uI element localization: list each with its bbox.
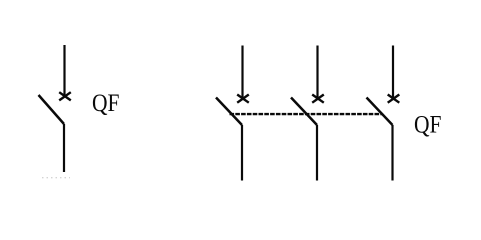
pole 3: breaker X contact: [388, 95, 400, 103]
svg-text:QF: QF: [414, 111, 442, 138]
wire: bottom terminal of QF (left): [63, 124, 65, 172]
faint dotted remnant under left symbol: [42, 177, 70, 179]
pole 3: switch blade: [367, 98, 393, 126]
pole 1: bottom terminal wire: [241, 125, 243, 181]
three-pole circuit breaker QF (right): [216, 46, 399, 181]
pole 1: top terminal wire: [241, 46, 243, 99]
pole 3: top terminal wire: [392, 46, 394, 99]
wire: top terminal of QF (left): [63, 45, 65, 96]
pole 1: switch blade: [216, 98, 242, 126]
breaker X contact (left): [59, 92, 71, 100]
pole 2: bottom terminal wire: [316, 125, 318, 181]
dashed mechanical linkage: [230, 113, 383, 115]
pole 2: switch blade: [291, 98, 317, 126]
pole 2: breaker X contact: [312, 95, 324, 103]
pole 1: breaker X contact: [237, 95, 249, 103]
single-pole circuit breaker QF (left): [39, 45, 71, 172]
pole 2: top terminal wire: [316, 46, 318, 99]
switch blade (left): [39, 95, 65, 124]
svg-text:QF: QF: [92, 90, 120, 117]
pole 3: bottom terminal wire: [391, 125, 393, 181]
